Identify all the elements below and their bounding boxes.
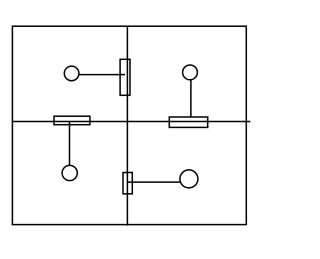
- wire: horizontal centre conductor: [12, 121, 250, 123]
- key K4 base (vertical pad on centre conductor, lower-middle): [123, 173, 132, 194]
- wire: K4 knob lead: [127, 181, 179, 183]
- key K3 knob (circle, lower-left): [62, 165, 77, 180]
- key K2 base (horizontal pad on centre conductor): [169, 117, 207, 127]
- wire: K1 knob lead: [79, 74, 125, 76]
- wire: outer rectangular loop: [12, 26, 246, 224]
- wire: vertical centre conductor: [126, 26, 128, 225]
- key K1 base (vertical pad on centre conductor): [120, 59, 130, 95]
- key K3 base (horizontal pad on centre conductor, middle-left): [54, 116, 90, 125]
- key K2 knob (circle, upper-right): [183, 65, 198, 80]
- key K4 knob (circle, lower-right): [180, 170, 198, 188]
- wire: K3 knob lead: [69, 122, 71, 166]
- key K1 knob (circle, upper-left): [64, 66, 79, 81]
- wire: K2 knob lead: [190, 80, 192, 117]
